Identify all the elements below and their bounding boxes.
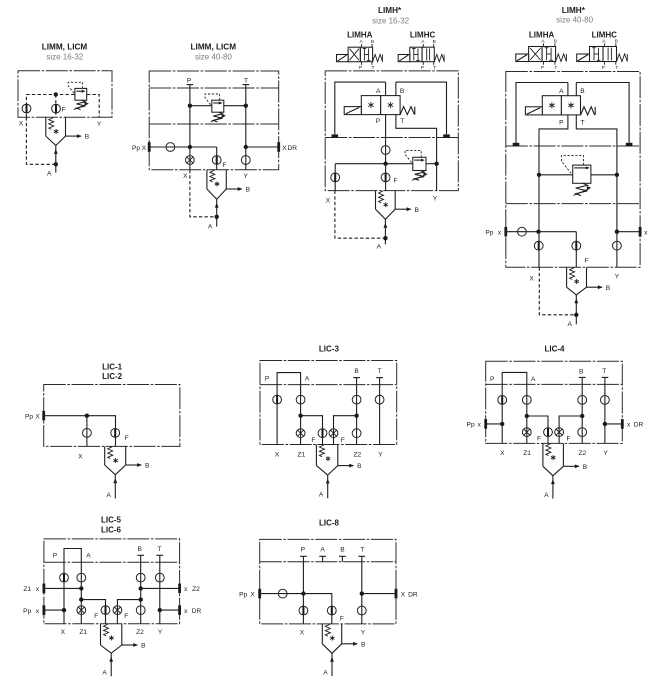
P-A bridge lines (LIC-3) [265,373,310,445]
svg-text:LIC-8: LIC-8 [319,519,340,528]
svg-text:x: x [36,608,40,615]
orifice on Pp line (40-80) [518,227,527,236]
port T line (LIC-8) [358,547,365,624]
port T line (LIC-5) [156,546,163,624]
svg-text:Pp: Pp [239,591,247,598]
port label Y [243,173,248,180]
svg-text:A: A [544,492,549,499]
port P line [187,78,194,147]
svg-text:B: B [246,187,251,194]
port Pp with plug (40-80) [485,227,539,237]
svg-text:Z1: Z1 [23,586,31,593]
pilot valve symbol LIMHC (16-32) [398,39,444,71]
svg-text:B: B [85,134,90,141]
port label Z1 (LIC-5) [79,629,87,636]
relief valve RV4 (LIMH 40-80) pilot line [561,156,583,174]
svg-text:A: A [359,39,363,45]
port label X (40-80) [529,276,534,283]
relief branch line P-T [188,104,248,108]
svg-text:T: T [615,65,618,71]
pilot valve symbol LIMHA (16-32) [337,39,383,71]
title LIC-8 [319,519,340,528]
logic cartridge poppet (LIMH 40-80) port A arrow [567,295,578,328]
orifice at X port (40-80) [186,156,195,165]
orifice on P line (LIC-4) [498,396,507,405]
orifice on A line (LIC-5) [77,573,86,582]
svg-text:Y: Y [243,173,248,180]
port A stub (LIC-8) [319,547,326,562]
supply line A side (40-80) [516,83,568,143]
orifice F (16-32) [381,164,397,191]
orifice F-left (LIC-4) [537,428,552,443]
svg-text:T: T [581,120,585,127]
title LIMM, LICM size 40-80 [191,43,237,62]
port label X (LIC-5) [61,629,66,636]
svg-text:X: X [326,197,331,204]
valve body LIMH 40-80 [506,72,640,268]
svg-text:LIMHC: LIMHC [410,30,436,39]
svg-text:P: P [602,65,605,71]
valve body LIMM/LICM 40-80 [149,71,279,170]
port P line (LIC-8) [300,547,307,624]
logic cartridge poppet (LIMM 40-80) [207,170,226,199]
svg-text:P: P [359,65,362,71]
pilot line F branch (dashed) [55,95,57,118]
logic cartridge poppet (LIMH 16-32) port A arrow [377,219,388,250]
port P line down (40-80) [539,115,568,232]
logic cartridge poppet (LIC-1/2) [105,446,126,474]
plug on A-side line [332,134,339,137]
valve body LIC-4 [486,361,623,443]
svg-text:LIC-6: LIC-6 [101,525,122,534]
svg-text:X: X [142,145,147,152]
X line [189,147,191,170]
port B stub (LIC-8) [339,547,346,562]
svg-text:DR: DR [634,422,644,429]
solenoid valve LIMH (40-80) solenoid [525,107,542,115]
port DR to T line (LIC-8) [360,589,418,599]
X branch (LIC-1) [85,414,89,447]
port DR to T line (LIC-4) [603,419,644,429]
svg-text:B: B [145,463,150,470]
svg-text:X: X [500,450,505,457]
pilot line to Y (dashed) [87,95,99,118]
port label Y (LIC-3) [378,452,383,459]
port P line down [376,115,386,164]
svg-text:P: P [265,375,270,382]
svg-text:X: X [250,591,255,598]
orifice on T line (LIC-3) [375,395,384,404]
svg-text:DR: DR [288,145,298,152]
pilot line X to A (dashed, 40-80) [190,170,219,219]
Y line with orifice [241,147,250,170]
logic cartridge poppet (LIMM 16-32) [46,117,66,145]
svg-text:T: T [360,547,364,554]
orifice F [52,104,66,113]
pilot valve symbol LIMHC (40-80) [577,38,628,71]
port label X [183,173,188,180]
svg-text:Pp: Pp [132,145,140,152]
body section line upper [149,87,279,89]
port Pp with plug [132,142,190,152]
orifice at Z2 (LIC-3) [352,429,361,438]
svg-text:T: T [554,65,557,71]
svg-text:B: B [433,39,436,45]
svg-text:LIMH*: LIMH* [378,6,402,15]
svg-text:Z2: Z2 [136,629,144,636]
junction node above F [54,92,58,96]
port Z2 to B line (LIC-5) [139,584,201,594]
port DR with plug [244,142,298,152]
branch A to F-left (LIC-4) [525,414,548,444]
orifice at X port [22,104,31,113]
pilot branch to F [188,145,217,170]
relief valve RV4 (LIMH 40-80) body [573,165,591,183]
svg-text:B: B [615,38,618,44]
svg-text:Pp: Pp [485,230,493,237]
plug on A-side line (40-80) [513,143,520,146]
svg-text:Y: Y [615,274,620,281]
valve body LIC-1/2 [44,385,180,447]
svg-text:LIMM, LICM: LIMM, LICM [191,43,237,52]
svg-text:A: A [567,321,572,328]
port label Z1 (LIC-3) [298,452,306,459]
svg-text:P: P [490,376,495,383]
logic cartridge poppet (LIMH 40-80) [567,267,587,295]
relief valve RV2 (LIMM 40-80) pilot line [205,94,220,106]
svg-text:B: B [583,464,588,471]
svg-text:F: F [94,613,98,620]
svg-text:B: B [340,547,345,554]
orifice on B line (LIC-3) [352,395,361,404]
port T line (LIC-4) [602,368,609,443]
logic cartridge poppet (LIC-3) [316,445,337,476]
svg-text:P: P [376,118,381,125]
pilot valve symbol LIMHA (40-80) [516,38,567,71]
port label Z2 (LIC-3) [353,452,361,459]
orifice F (40-80) [572,241,589,264]
pilot line X to A (dashed) [26,117,58,166]
logic cartridge poppet (LIC-3) port A arrow [319,475,330,499]
orifice at Z2 line (LIC-5) [136,606,145,615]
svg-text:Y: Y [97,121,102,128]
port T line down (40-80) [576,115,617,232]
logic cartridge poppet (LIMM 16-32) port A arrow [47,146,58,178]
svg-text:B: B [579,369,584,376]
svg-text:F: F [394,178,398,185]
valve body LIC-5/6 [44,539,180,624]
solenoid valve LIMH (16-32) flow marks [368,102,393,108]
svg-text:LIMH*: LIMH* [562,6,586,15]
orifice F (LIC-1) [111,429,129,442]
svg-text:B: B [354,368,359,375]
title LIMHA (40-80) [529,30,555,39]
port label Y (LIC-4) [603,450,608,457]
solenoid valve LIMH (16-32) solenoid [344,107,361,115]
svg-text:B: B [357,463,362,470]
orifice on A line (LIC-3) [296,395,305,404]
branch B to F-right (LIC-4) [559,414,584,444]
svg-text:F: F [537,436,541,443]
svg-text:A: A [208,224,213,231]
logic cartridge poppet (LIC-1/2) port A arrow [106,475,117,499]
orifice at X (16-32) [331,173,340,182]
svg-text:B: B [141,643,146,650]
svg-text:LIC-1: LIC-1 [102,362,123,371]
relief valve RV3 (LIMH 16-32) spring [412,171,428,181]
svg-text:A: A [86,552,91,559]
pilot valve port B line [396,82,405,96]
plug on B-side line (40-80) [626,143,633,146]
valve body LIMM/LICM 16-32 [18,71,112,117]
svg-text:T: T [372,65,375,71]
relief valve RV1 (LIMM 16-32) flow arrow [76,90,85,93]
svg-text:A: A [47,171,52,178]
port Pp line to F (LIC-8) [239,589,332,624]
port label X (LIC-8) [300,629,305,636]
svg-text:x: x [627,422,631,429]
svg-text:LIC-4: LIC-4 [545,345,566,354]
body section line lower (40-80) [506,203,640,205]
branch A to F-left (LIC-5) [79,597,105,623]
orifice F (40-80) [212,156,226,170]
logic cartridge poppet (LIC-5/6) [101,624,122,654]
orifice at Z2 (LIC-4) [578,428,587,437]
pilot port B line (40-80) [576,83,585,96]
port label Y (16-32) [433,196,438,203]
port label X [19,121,24,128]
pilot valve port A line [376,82,386,96]
relief valve RV1 (LIMM 16-32) body [75,88,87,100]
svg-text:LIC-3: LIC-3 [319,345,340,354]
valve body LIC-3 [260,361,397,445]
orifice F (LIC-8) [327,606,344,622]
relief valve RV4 (LIMH 40-80) flow arrow [574,166,590,169]
svg-text:LIMHA: LIMHA [529,30,555,39]
svg-text:X: X [19,121,24,128]
relief valve RV3 (LIMH 16-32) flow arrow [414,159,425,162]
orifice on B line (LIC-4) [578,396,587,405]
svg-text:P: P [53,552,58,559]
svg-text:Z2: Z2 [578,450,586,457]
Y line (16-32) [436,164,438,191]
orifice on P line (LIC-3) [273,395,282,404]
svg-text:size 40-80: size 40-80 [556,16,593,25]
svg-text:DR: DR [408,591,418,598]
Y line with orifice (40-80) [613,232,622,268]
port Pp line to F (LIC-1) [25,411,116,447]
port label Z2 (LIC-5) [136,629,144,636]
svg-text:x: x [184,586,188,593]
title LIMHC (16-32) [410,30,436,39]
svg-text:LIMM, LICM: LIMM, LICM [42,43,88,52]
svg-text:F: F [222,162,226,169]
svg-text:A: A [531,376,536,383]
P-A bridge lines (LIC-4) [490,372,536,443]
port label X (LIC-3) [275,452,280,459]
svg-text:T: T [157,546,161,553]
orifice on Pp line [166,143,175,152]
svg-text:A: A [559,88,564,95]
svg-text:LIMHC: LIMHC [592,30,618,39]
body section line upper (40-80) [506,145,640,147]
svg-text:P: P [421,65,424,71]
orifice F-left (LIC-3) [311,429,327,444]
logic cartridge poppet (LIC-8) [322,624,341,653]
svg-text:T: T [602,368,606,375]
orifice on P line (LIC-5) [60,573,69,582]
svg-text:B: B [554,38,557,44]
svg-text:DR: DR [192,608,202,615]
svg-text:size 16-32: size 16-32 [372,16,409,25]
orifice at X (LIC-1) [83,429,92,438]
logic cartridge poppet (LIC-4) port B arrow [563,464,587,471]
orifice on A line (LIC-4) [522,396,531,405]
svg-text:X: X [401,591,406,598]
svg-text:F: F [62,106,66,113]
svg-text:F: F [125,435,129,442]
svg-text:size 40-80: size 40-80 [195,53,232,62]
logic cartridge poppet (LIMH 16-32) port B arrow [395,207,419,214]
orifice on T line (LIC-4) [601,396,610,405]
orifice on T line (LIC-5) [155,573,164,582]
branch B to F-right (LIC-3) [334,414,359,445]
port T line to Y side [396,115,437,164]
svg-text:Y: Y [158,629,163,636]
logic cartridge poppet (LIC-8) port A arrow [323,653,334,676]
svg-text:T: T [400,118,404,125]
solenoid valve LIMH (16-32) return spring [400,107,415,115]
title LIC-3 [319,345,340,354]
svg-text:LIC-5: LIC-5 [101,516,122,525]
svg-text:T: T [244,78,248,85]
orifice at Z1 line (LIC-5) [77,606,86,615]
pilot line X branch (dashed) [26,95,75,118]
line B side (40-80) [576,83,629,143]
svg-text:P: P [301,547,306,554]
X branch line [334,164,336,191]
port label X (LIC-1) [78,453,83,460]
orifice F-right (LIC-4) [555,428,571,443]
svg-text:LIC-2: LIC-2 [102,372,123,381]
supply line to pilot valve A side [335,82,386,134]
port label Z1 (LIC-4) [523,450,531,457]
X line with orifice (40-80) [534,232,543,268]
logic cartridge poppet (LIMM 40-80) port A arrow [208,199,219,230]
svg-text:B: B [606,285,611,292]
P-A bridge lines (LIC-5) [53,549,91,624]
svg-text:B: B [371,39,374,45]
svg-text:A: A [320,547,325,554]
pilot line X to A (dashed, 16-32) [335,191,388,241]
relief branch (40-80) [537,173,619,177]
relief valve RV1 (LIMM 16-32) pilot line [68,82,82,93]
port label Y (LIC-5) [158,629,163,636]
port T line [242,78,249,147]
branch B to F-right (LIC-5) [117,597,142,623]
title LIMHA (16-32) [347,30,373,39]
title LIMH* size 40-80 [556,6,593,25]
port Z1 to A line (LIC-5) [23,584,83,594]
relief valve RV2 (LIMM 40-80) flow arrow [213,102,222,105]
port B line (LIC-5) [137,546,144,624]
svg-text:x: x [184,608,188,615]
line pilot valve B side [396,82,447,134]
solenoid valve LIMH (40-80) return spring [581,107,596,115]
relief outlet to Y line [426,162,439,166]
pilot gallery line [335,162,413,166]
svg-text:F: F [585,257,589,264]
body section line lower [149,123,279,125]
logic cartridge poppet (LIC-4) [543,443,564,475]
body section line (LIC-8) [260,561,396,563]
svg-text:Z2: Z2 [353,452,361,459]
title LIC-4 [545,345,566,354]
svg-text:Z1: Z1 [523,450,531,457]
logic cartridge poppet (LIMM 16-32) port B arrow [66,134,90,141]
svg-text:B: B [414,207,419,214]
svg-text:x: x [36,586,40,593]
logic cartridge poppet (LIC-5/6) port B arrow [122,643,146,650]
orifice F-right (LIC-5) [113,606,128,621]
svg-text:X: X [78,453,83,460]
svg-text:B: B [361,641,366,648]
port X right with plug (40-80) [615,227,648,237]
svg-text:B: B [400,88,405,95]
logic cartridge poppet (LIC-3) port B arrow [338,463,362,470]
svg-text:Pp: Pp [467,422,475,429]
valve body LIMH 16-32 [325,71,458,191]
orifice at Z1 (LIC-3) [296,429,305,438]
port B line (LIC-4) [579,369,586,444]
svg-text:Z1: Z1 [298,452,306,459]
svg-text:F: F [340,615,344,622]
port label X (LIC-4) [500,450,505,457]
svg-text:Y: Y [433,196,438,203]
solenoid valve LIMH (40-80) flow marks [549,102,574,108]
relief valve RV1 (LIMM 16-32) spring [74,100,89,109]
svg-text:A: A [421,39,425,45]
relief valve RV2 (LIMM 40-80) body [212,100,224,112]
svg-text:Y: Y [378,452,383,459]
svg-text:Y: Y [361,629,366,636]
logic cartridge poppet (LIC-8) port B arrow [342,641,366,648]
svg-text:X: X [61,629,66,636]
solenoid valve LIMH (16-32) body [361,96,400,115]
svg-text:A: A [106,492,111,499]
port label Y (LIC-8) [361,629,366,636]
pilot port A line (40-80) [559,83,568,96]
svg-text:F: F [341,437,345,444]
svg-text:B: B [137,546,142,553]
svg-text:X: X [183,173,188,180]
body section line (LIC-4) [486,383,623,385]
orifice on Pp line (LIC-8) [278,589,287,598]
port Pp to P line (LIC-4) [467,419,505,429]
orifice at Z1 (LIC-4) [522,428,531,437]
svg-text:P: P [559,120,564,127]
port label X (16-32) [326,197,331,204]
svg-text:F: F [124,613,128,620]
title LIMHC (40-80) [592,30,618,39]
relief valve RV3 (LIMH 16-32) pilot line [405,150,421,163]
svg-text:P: P [541,65,544,71]
svg-text:A: A [305,375,310,382]
solenoid valve LIMH (40-80) body [542,96,580,115]
svg-text:Z2: Z2 [192,586,200,593]
orifice on B line (LIC-5) [136,573,145,582]
orifice on P pilot line [381,146,390,155]
